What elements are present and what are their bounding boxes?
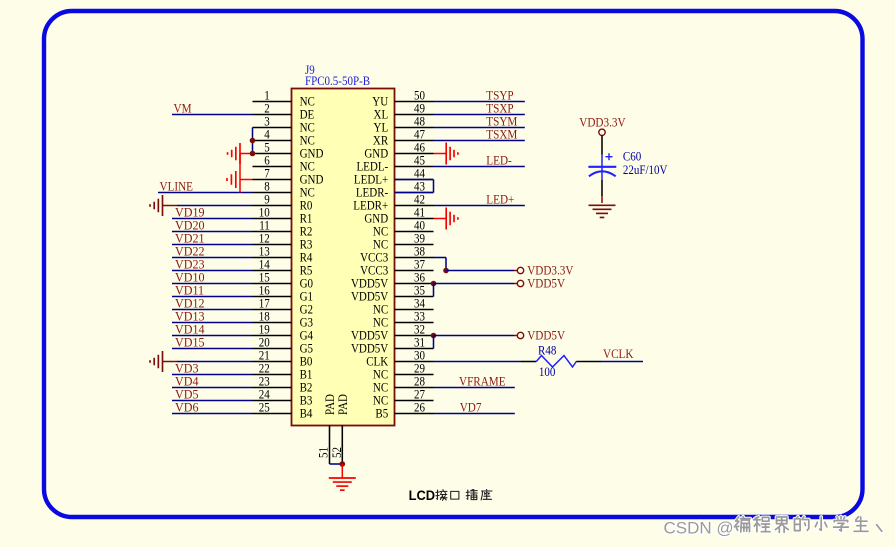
svg-text:52: 52: [329, 447, 344, 458]
svg-text:R48: R48: [538, 343, 556, 358]
svg-text:VDD5V: VDD5V: [527, 276, 565, 291]
svg-text:LED-: LED-: [486, 153, 511, 168]
svg-text:FPC0.5-50P-B: FPC0.5-50P-B: [305, 73, 370, 88]
svg-text:VM: VM: [174, 101, 192, 116]
svg-text:VD15: VD15: [175, 335, 205, 349]
svg-text:B5: B5: [375, 406, 388, 421]
svg-text:100: 100: [539, 364, 556, 379]
svg-text:VCLK: VCLK: [603, 346, 634, 361]
svg-text:VLINE: VLINE: [160, 179, 193, 194]
svg-text:VFRAME: VFRAME: [459, 374, 506, 389]
svg-text:VDD5V: VDD5V: [527, 328, 565, 343]
svg-text:26: 26: [414, 400, 425, 415]
svg-text:PAD: PAD: [335, 394, 350, 415]
svg-text:22uF/10V: 22uF/10V: [623, 162, 668, 177]
svg-text:25: 25: [259, 400, 270, 415]
svg-text:LED+: LED+: [486, 192, 514, 207]
svg-text:B4: B4: [300, 406, 313, 421]
svg-text:VD6: VD6: [175, 400, 199, 414]
svg-text:CSDN @: CSDN @: [664, 519, 734, 538]
svg-text:VD7: VD7: [460, 400, 482, 415]
svg-text:TSXM: TSXM: [486, 127, 517, 142]
svg-text:VDD3.3V: VDD3.3V: [579, 115, 625, 130]
svg-text:LCD: LCD: [409, 487, 436, 503]
